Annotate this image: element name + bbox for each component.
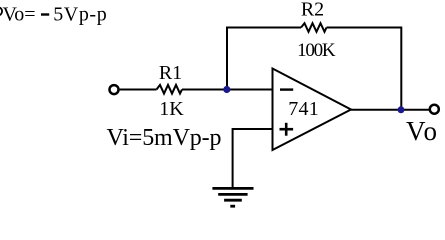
resistor R1: [157, 85, 183, 94]
svg-text:R1: R1: [159, 62, 182, 84]
svg-text:100K: 100K: [297, 40, 336, 61]
op-amp U1 (741): [273, 69, 352, 151]
resistor R2: [301, 23, 327, 32]
ground: [212, 188, 253, 206]
input terminal: [110, 85, 119, 94]
node: output junction: [398, 106, 405, 113]
wire: feedback left vertical + top run to R2: [227, 28, 301, 90]
node label Vo= -5Vp-p (top-left annotation): [0, 3, 107, 25]
svg-text:Vi=5mVp-p: Vi=5mVp-p: [107, 125, 222, 151]
wire: op-amp output to terminal: [351, 109, 429, 111]
svg-text:5Vp-p: 5Vp-p: [53, 3, 106, 25]
svg-text:Vo=: Vo=: [3, 3, 36, 25]
node: junction at inverting input: [223, 86, 230, 93]
non-inverting input pin mark (plus): [280, 123, 294, 136]
output terminal: [430, 105, 439, 114]
inverting input pin mark (minus): [280, 88, 293, 90]
wire: input terminal to R1: [120, 89, 157, 91]
svg-text:1K: 1K: [159, 98, 184, 120]
wire: R2 to right vertical down to output node: [327, 28, 402, 110]
wire: non-inverting input to ground stem: [233, 129, 273, 188]
svg-text:741: 741: [288, 98, 319, 120]
wire: R1 to inverting input: [182, 89, 273, 91]
svg-text:R2: R2: [301, 0, 324, 21]
svg-text:Vo: Vo: [406, 116, 437, 146]
